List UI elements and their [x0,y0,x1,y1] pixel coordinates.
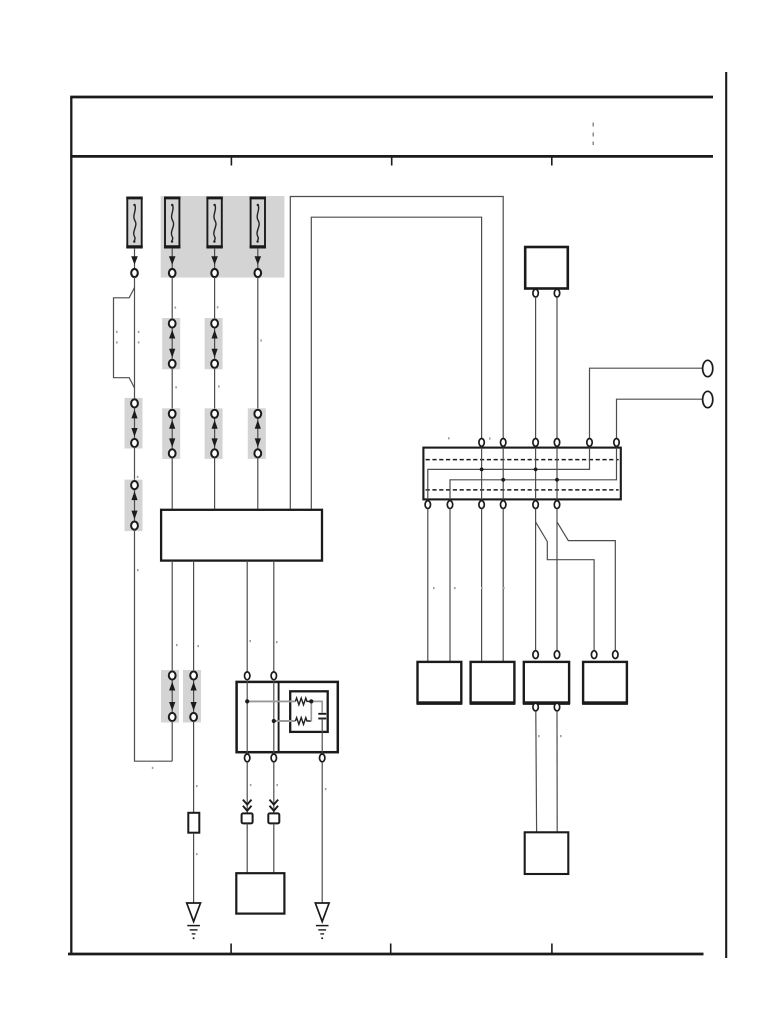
wire column-3 into relay block [214,458,216,509]
wire link resistors junction (grey) [311,701,322,721]
load box 3 [523,662,570,704]
wire column-3 link [214,368,216,410]
relay block [161,510,322,561]
ring terminal 2 [703,391,713,407]
connector pair column-2 upper [169,319,176,368]
connector pair lead-B connector [190,671,197,721]
wire: F1 output with down-arrow into connector [131,248,138,277]
wire strip pass-through c [535,448,537,500]
wire strip out 1 [427,509,429,662]
wire block lead C to sensor [246,561,248,672]
faint wire-label specks [116,306,562,855]
connector pin sensor pin 1 [245,672,250,680]
splice box 2 [268,813,279,823]
wire splice 1 to gauge box [246,824,248,873]
strip dashed bus lower [426,489,619,491]
connector pin sensor pin 2 [271,672,276,680]
wire wire to ring terminal 2 [617,399,704,438]
wire block lead D to sensor [273,561,275,672]
connector pin strip top pin 3 [533,439,538,447]
connector pair column-1 lower [131,481,138,530]
strip junction dots [480,468,559,482]
sensor inner element box [290,691,328,732]
junction dot sensor wire 2 [272,719,276,723]
wire sensor link 2 (grey) [274,720,296,722]
wire sensor wire 2 through [273,680,275,754]
connector pin strip bottom pin 6 [554,501,559,509]
connector pin strip bottom pin 1 [425,501,430,509]
connector pin box3 lower pin 1 [533,703,538,711]
junction dot sensor wire 1 [245,699,249,703]
wire column-1 long drop to bottom rail [135,530,173,762]
connector pin box3 pin 1 [533,651,538,659]
wire column-2 into relay block [171,458,173,509]
wire strip out 2 [449,509,451,662]
wire lead-B drop to resistor [193,721,195,813]
load box 2 [470,662,516,704]
connector pin strip top pin 4 [554,439,559,447]
bottom tick marks [231,944,552,954]
connector pin strip top pin 1 [479,439,484,447]
ring terminal 1 [703,360,713,376]
highlight band behind fuses 2-4 [161,196,285,278]
highlight behind connector column-2 upper [162,318,180,369]
capacitor C1 [318,714,326,719]
relay box (top right) [525,247,568,289]
ground G1 left [187,903,201,939]
highlight behind connector column-2 lower [162,408,180,459]
double-chevron arrow sensor out 1 arrow [243,800,252,811]
wire column-4 into relay block [257,458,259,509]
wire strip out 6 to connector [556,509,558,651]
wire sensor out 1 [246,762,248,813]
wire outer loop wire to junction strip [290,197,503,509]
connector pair column-4 lower [254,410,261,458]
connector pair column-3 lower [211,410,218,458]
connector pair column-3 upper [211,319,218,368]
wire strip pass-through d [556,448,558,500]
wire box3 to box5 wire 1 [535,711,538,832]
wire wire to ring terminal 1 [590,368,703,438]
gauge box (bottom left) [236,873,284,913]
wire capacitor to sensor pin 5 [321,719,323,754]
highlight behind connector column-1 lower [125,480,143,531]
connector pair column-2 lower [169,410,176,458]
wire strip internal bus 2 [450,448,617,500]
connector pin sensor pin 4 [271,754,276,762]
wire splice 2 to gauge box [273,824,275,873]
load box 1 [417,662,463,704]
wire branch 5 to box 4 [536,522,595,651]
wire box3 to box5 wire 2 [556,711,558,832]
double-chevron arrow sensor out 2 arrow [270,800,279,811]
highlight behind connector column-4 lower [248,408,266,459]
connector pin strip bottom pin 3 [479,501,484,509]
wire sensor wire 1 through [246,680,248,754]
header small dotted note [593,123,595,146]
connector pin relay box pin 1 [533,289,538,297]
fuse F4 [250,198,266,248]
bottom border line [68,953,704,956]
resistor/noise filter R1 [188,813,199,833]
wire branch 6 to box 4 [557,522,615,651]
connector pin box4 pin 2 [613,651,618,659]
wire sensor out 2 [273,762,275,813]
load box 5 (bottom right) [525,832,569,874]
connector pin relay box pin 2 [554,289,559,297]
connector pin strip bottom pin 5 [533,501,538,509]
left border line [70,97,72,954]
header tick marks [231,157,551,166]
splice box 1 [242,813,253,823]
wire strip pass-through b [502,448,504,500]
connector pin sensor pin 5 [320,754,325,762]
connector pin sensor pin 3 [245,754,250,762]
highlight behind connector lead-B connector [183,670,201,723]
wire sensor link 1 (grey) [247,700,295,702]
connector pair column-1 upper [131,399,138,447]
highlight behind connector column-3 lower [205,408,223,459]
wire strip out 3 [481,509,483,662]
fuse F3 [206,198,222,248]
connector pin box4 pin 1 [591,651,596,659]
wire column-1 drop from fuse F1 [134,277,136,399]
highlight behind connector column-1 upper [125,398,143,449]
sensor unit (sender gauge) [237,682,338,752]
fuse F1 [126,198,142,248]
connector pin strip top pin 6 [614,439,619,447]
wire inner loop wire to junction strip [311,217,481,509]
top border line [70,96,713,99]
ground G2 right [315,903,329,939]
wire column-2 link [171,368,173,410]
resistor element top [295,698,311,705]
wire lead-A to bottom rail [171,721,173,761]
wire column-3 drop [214,277,216,319]
highlight behind connector column-3 upper [205,318,223,369]
page right edge line [725,72,727,958]
junction dot resistor node [309,699,313,703]
fuse F2 [164,198,180,248]
resistor element bottom [295,718,311,725]
connector pin box3 pin 2 [554,651,559,659]
wire strip out 5 to connector [535,509,537,651]
wire relay box lead 2 [556,297,558,438]
wire strip out 4 [502,509,504,662]
highlight behind connector lead-A connector [161,670,179,723]
connector pin box3 lower pin 2 [554,703,559,711]
connector pin strip bottom pin 4 [501,501,506,509]
wire: shield detour loop on column 1 [114,288,135,389]
wire column-1 link [134,447,136,481]
load box 4 [582,662,628,704]
connector pin strip bottom pin 2 [447,501,452,509]
wire sensor pin5 to ground [321,762,323,903]
junction connector strip [423,448,620,500]
wire column-4 drop [257,277,259,410]
wire: F2 output with down-arrow into connector [169,248,176,277]
wire column-2 drop [171,277,173,319]
header bottom rule [70,155,713,158]
connector pin strip top pin 2 [501,439,506,447]
wire lead-B to ground [193,833,195,903]
connector pair lead-A connector [169,671,176,721]
strip dashed bus upper [426,459,619,461]
wire block lead B [193,561,195,672]
wire: F4 output with down-arrow into connector [254,248,261,277]
sensor internal divider [278,682,280,752]
wire block lead A [171,561,173,672]
wire strip pass-through a [481,448,483,500]
wire strip internal bus 1 [428,448,590,500]
connector pin strip top pin 5 [587,439,592,447]
wire relay box lead 1 [535,297,537,438]
wire: F3 output with down-arrow into connector [211,248,218,277]
